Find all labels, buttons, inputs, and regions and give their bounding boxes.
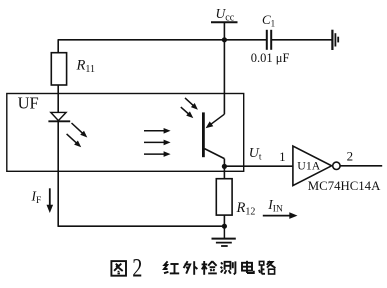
svg-text:R12: R12 (236, 200, 256, 218)
caption character 外 (184, 261, 198, 275)
label R12 (236, 200, 256, 218)
inverter output bubble (333, 162, 340, 169)
svg-text:2: 2 (347, 149, 354, 164)
svg-text:IF: IF (31, 188, 42, 206)
svg-text:0.01 μF: 0.01 μF (251, 51, 290, 65)
wire LED cathode down the left branch (57, 121, 59, 226)
inverter U1A triangle (293, 146, 332, 186)
wire output node to inverter input pin 1 (224, 165, 293, 167)
junction dot ground node (222, 224, 227, 229)
label UF (18, 93, 39, 112)
wire R12 top lead (223, 166, 225, 178)
label U1A (297, 159, 320, 173)
wire R11 bottom lead to LED anode (57, 85, 59, 113)
wire collector branch from Ucc junction down (223, 40, 225, 114)
svg-text:IIN: IIN (267, 197, 283, 215)
current arrow IF (47, 188, 54, 213)
svg-text:MC74HC14A: MC74HC14A (308, 179, 381, 193)
caption character 路 (259, 261, 275, 274)
junction dot at Ucc node (222, 37, 227, 42)
svg-text:Ucc: Ucc (216, 6, 235, 24)
svg-text:R11: R11 (76, 58, 96, 76)
svg-text:UF: UF (18, 93, 39, 112)
label R11 (76, 58, 96, 76)
wire R11 top lead (57, 40, 59, 53)
label IF (31, 188, 42, 206)
ground symbol (bottom) (212, 226, 236, 246)
svg-text:2: 2 (132, 254, 142, 283)
label C1 (262, 12, 275, 29)
label Ucc (216, 6, 235, 24)
LED (optocoupler emitter diode) (48, 112, 70, 121)
pin number 2 (347, 149, 354, 164)
caption character 2 (132, 254, 142, 283)
ground symbol (right of C1, rotated) (332, 30, 338, 50)
LED emitted-light arrows (67, 123, 88, 147)
wire R12 bottom lead (223, 215, 225, 226)
power symbol Ucc (rail bar and stem) (211, 22, 238, 40)
caption character 电 (242, 261, 254, 273)
label Ut (249, 146, 262, 163)
resistor R11 (51, 53, 66, 85)
capacitor C1 plates (267, 30, 271, 50)
label MC74HC14A (308, 179, 381, 193)
svg-text:U1A: U1A (297, 159, 320, 173)
infrared radiation arrows (3x) (144, 128, 171, 157)
optocoupler package outline UF (7, 94, 244, 172)
value label 0.01 uF (251, 51, 290, 65)
caption character 测 (221, 261, 236, 274)
wire bottom: LED branch to ground node (58, 225, 225, 227)
label IIN (267, 197, 283, 215)
wire inverter output pin 2 (340, 165, 382, 167)
current arrow IIN (263, 212, 298, 219)
caption character 红 (164, 261, 179, 273)
resistor R12 (216, 179, 232, 215)
phototransistor Q (optocoupler detector) (203, 112, 224, 166)
svg-text:1: 1 (279, 150, 285, 164)
wire C1 right plate to ground (272, 39, 332, 41)
svg-text:Ut: Ut (249, 146, 262, 163)
wire top rail: R11 top to Ucc junction (58, 39, 225, 41)
junction dot output node Ut (222, 164, 227, 169)
caption character 图 (111, 261, 126, 276)
phototransistor incident-light arrows (181, 98, 198, 118)
pin number 1 (279, 150, 285, 164)
svg-text:C1: C1 (262, 12, 275, 29)
caption character 检 (202, 261, 217, 275)
wire top rail: Ucc junction to C1 left plate (224, 39, 266, 41)
